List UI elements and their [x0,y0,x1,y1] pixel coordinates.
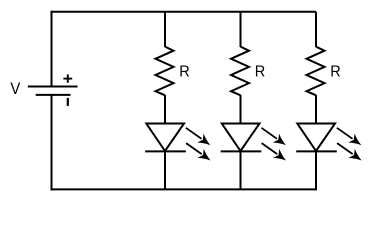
svg-text:R: R [179,63,190,81]
svg-text:V: V [10,80,20,98]
